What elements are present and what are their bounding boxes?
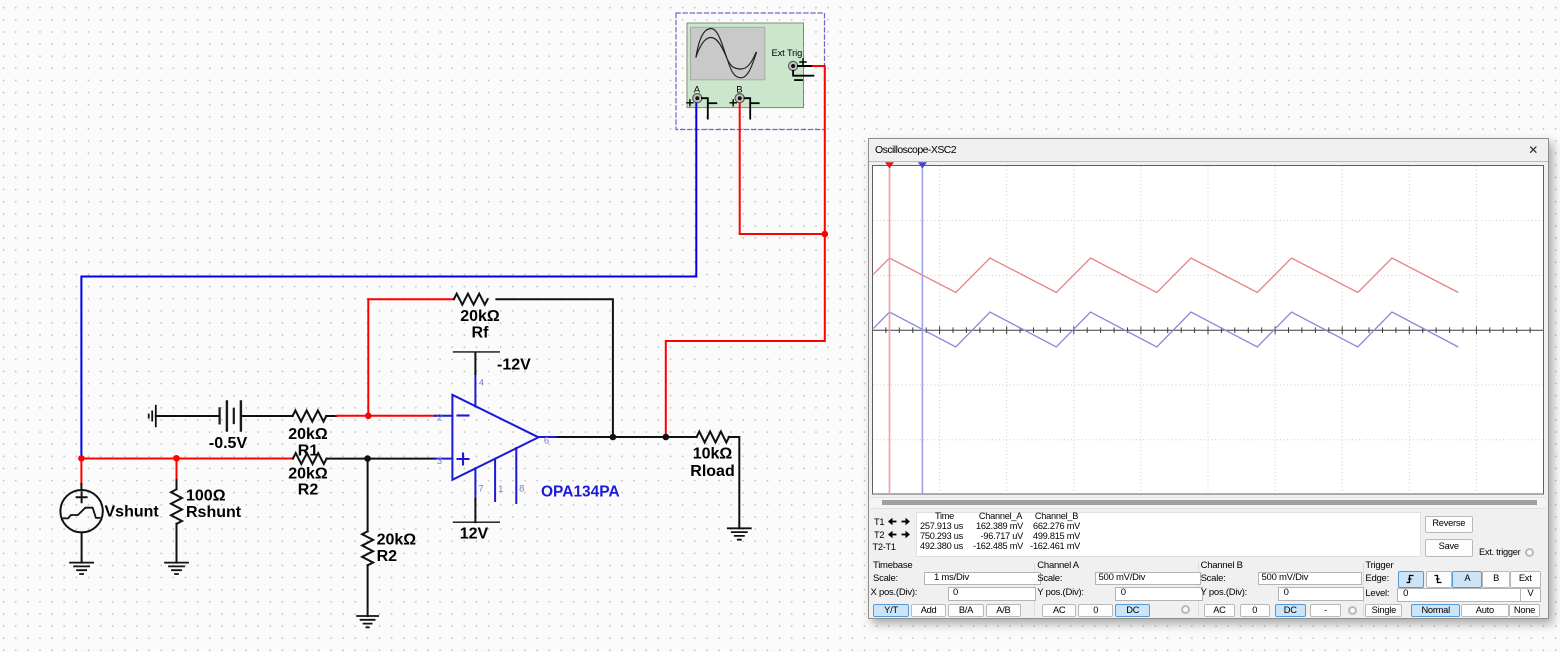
ground (below R2) <box>357 616 378 627</box>
svg-text:10kΩ: 10kΩ <box>693 446 733 463</box>
wire Rf branch vertical (red) <box>367 299 369 416</box>
pin 1 stub <box>495 459 503 501</box>
junction output/Rf <box>610 434 617 441</box>
svg-text:Rf: Rf <box>472 325 490 342</box>
wire to vertical R2 <box>367 459 369 532</box>
ground (Rshunt) <box>165 563 188 574</box>
resistor Rload <box>697 432 729 443</box>
svg-text:20kΩ: 20kΩ <box>460 308 500 325</box>
scope display area <box>873 166 1544 495</box>
wire Vshunt top (red) <box>80 458 82 484</box>
label Rload 10k <box>690 446 734 481</box>
source Vshunt <box>60 490 102 532</box>
label Vshunt <box>105 504 160 521</box>
wire Vshunt lead <box>80 484 82 490</box>
label Rf 20k <box>460 308 500 342</box>
wire Rshunt to ground <box>176 524 178 563</box>
wire R2 to pin3 <box>327 458 435 460</box>
svg-text:Rshunt: Rshunt <box>186 504 242 521</box>
oscilloscope window XSC2 front panel <box>868 138 1549 619</box>
svg-text:R2: R2 <box>298 482 319 499</box>
svg-text:-0.5V: -0.5V <box>209 435 248 452</box>
ground (Rload) <box>728 528 751 539</box>
junction output/trig <box>663 434 670 441</box>
svg-text:12V: 12V <box>460 526 489 543</box>
junction trig/B <box>822 231 829 238</box>
op-amp U1 OPA134PA <box>452 395 538 480</box>
Channel B section <box>1201 560 1243 571</box>
oscilloscope XSC2 icon body <box>687 23 804 108</box>
wire R1 right stub <box>326 415 336 417</box>
svg-text:2: 2 <box>437 413 442 424</box>
value label -0.5V <box>209 435 248 452</box>
power bar -12V <box>454 352 532 374</box>
grid horizontal dotted <box>873 221 1543 440</box>
grid vertical dotted <box>940 166 1477 494</box>
wire Rf to output node <box>496 299 613 437</box>
oscilloscope XSC2 selection box <box>676 13 825 130</box>
pin 8 stub <box>516 448 524 503</box>
pin 4 stub <box>475 353 484 407</box>
wire Rf left (red) <box>368 298 454 300</box>
wire Rload to ground <box>729 437 740 528</box>
svg-text:Ext Trig: Ext Trig <box>772 48 803 58</box>
svg-text:20kΩ: 20kΩ <box>288 426 328 443</box>
svg-text:8: 8 <box>519 484 524 495</box>
wire ground to battery <box>156 415 220 417</box>
svg-text:20kΩ: 20kΩ <box>288 466 328 483</box>
svg-text:1: 1 <box>498 484 503 495</box>
power bar 12V <box>454 522 500 542</box>
svg-text:3: 3 <box>437 456 442 467</box>
wire vertical R2 to ground <box>367 565 369 616</box>
label R1 20k <box>288 426 328 460</box>
label Ext Trig <box>772 48 803 58</box>
wire Vshunt to ground <box>81 532 83 562</box>
label R2 vertical 20k <box>377 532 417 566</box>
wire Rshunt lead <box>176 480 178 489</box>
wire battery to R1 <box>241 415 293 417</box>
time axis with ticks <box>873 326 1543 334</box>
pin 3 stub <box>435 456 452 467</box>
resistor Rshunt <box>171 489 182 524</box>
channel A trace (red) <box>874 258 1459 293</box>
pin 6 output stub <box>539 436 558 447</box>
terminal B <box>730 85 759 119</box>
resistor Rf <box>454 294 488 305</box>
svg-text:Vshunt: Vshunt <box>105 504 160 521</box>
cursor T1 <box>889 166 891 494</box>
wire output <box>558 436 697 438</box>
resistor R2 horizontal <box>293 453 327 464</box>
svg-text:OPA134PA: OPA134PA <box>541 484 620 501</box>
terminal A <box>687 85 716 119</box>
junction Rshunt top <box>173 455 180 462</box>
junction row2 left <box>78 455 85 462</box>
label OPA134PA <box>541 484 620 501</box>
Timebase section <box>873 560 912 571</box>
channel B trace (blue) <box>874 312 1459 347</box>
svg-text:20kΩ: 20kΩ <box>377 532 417 549</box>
label Rshunt 100 <box>186 488 242 522</box>
svg-text:R2: R2 <box>377 548 398 565</box>
svg-text:7: 7 <box>478 484 483 495</box>
wire channel B (red) <box>740 104 825 235</box>
ground (battery left) <box>149 406 156 427</box>
ground (Vshunt) <box>70 563 93 574</box>
junction pin2 net <box>365 413 372 420</box>
terminal Ext Trig <box>789 59 814 80</box>
svg-text:4: 4 <box>479 378 484 389</box>
pin 2 stub <box>435 413 452 424</box>
Channel A section <box>1037 560 1079 571</box>
junction R2 vertical tap <box>364 455 371 462</box>
wire Rshunt top (red) <box>176 458 178 480</box>
resistor R1 <box>293 411 327 422</box>
label R2 20k <box>288 466 328 499</box>
resistor R2 vertical <box>362 531 373 565</box>
svg-text:6: 6 <box>544 436 549 447</box>
battery V1 -0.5V <box>220 402 241 431</box>
pin 7 stub <box>475 468 483 522</box>
svg-text:-12V: -12V <box>497 357 531 374</box>
svg-text:Rload: Rload <box>690 463 734 480</box>
svg-text:100Ω: 100Ω <box>186 488 226 505</box>
Trigger section <box>1365 560 1393 571</box>
cursor T2 <box>921 166 923 494</box>
wire channel A (blue) <box>81 104 696 459</box>
wire R1 to pin2 (red) <box>337 415 436 417</box>
wire ext trigger (red) <box>666 66 825 437</box>
wire row2 (red) <box>81 458 293 460</box>
